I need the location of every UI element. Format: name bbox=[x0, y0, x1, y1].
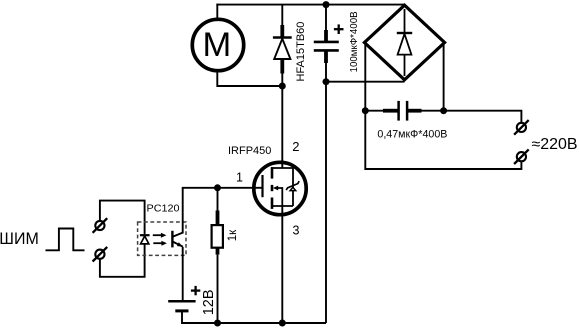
node cap1 bottom junction bbox=[323, 78, 330, 85]
svg-text:3: 3 bbox=[293, 224, 300, 238]
wire bridge left lead bbox=[364, 43, 366, 111]
polarity plus C1 bbox=[334, 24, 344, 34]
diode VD1 HFA15TB60 bbox=[273, 5, 292, 87]
node cap1 top junction bbox=[323, 1, 330, 8]
wire motor top lead bbox=[216, 4, 218, 20]
optocoupler phototransistor bbox=[172, 231, 183, 248]
optocoupler light arrows bbox=[153, 233, 167, 246]
wire collector lead bbox=[182, 188, 184, 234]
svg-text:HFA15TB60: HFA15TB60 bbox=[295, 22, 307, 82]
battery GB1 12V bbox=[168, 301, 195, 311]
svg-text:0,47мкФ*400В: 0,47мкФ*400В bbox=[377, 128, 447, 140]
wire source bbox=[281, 213, 283, 323]
terminal XS1 top 220V bbox=[514, 120, 529, 135]
node resistor bottom junction bbox=[214, 320, 221, 327]
svg-text:IRFP450: IRFP450 bbox=[228, 145, 271, 157]
wire pwm top loop bbox=[100, 201, 145, 234]
wire dc minus bbox=[326, 81, 405, 83]
svg-text:1: 1 bbox=[236, 171, 243, 185]
wire top rail bbox=[216, 4, 405, 6]
svg-text:PC120: PC120 bbox=[147, 203, 180, 214]
wire motor bottom lead bbox=[217, 71, 282, 87]
node cap2 left junction bbox=[362, 107, 369, 114]
wire bridge right lead bbox=[443, 43, 445, 111]
svg-text:M: M bbox=[203, 26, 232, 64]
resistor R1 1k bbox=[212, 189, 223, 323]
optocoupler U1 PC120 dashed box bbox=[138, 222, 186, 255]
transistor Q1 IRFP450 mosfet bbox=[252, 160, 306, 216]
node gate junction bbox=[214, 184, 221, 191]
wire emitter lead bbox=[182, 247, 184, 301]
svg-text:100мкФ*400В: 100мкФ*400В bbox=[348, 11, 360, 72]
wire from bottom terminal bbox=[365, 111, 521, 169]
node drain junction bbox=[279, 83, 286, 90]
svg-text:2: 2 bbox=[292, 139, 299, 154]
svg-text:ШИМ: ШИМ bbox=[0, 230, 39, 248]
wire negative vertical bbox=[325, 62, 327, 323]
svg-text:≈220В: ≈220В bbox=[532, 136, 578, 153]
svg-text:12В: 12В bbox=[201, 289, 217, 315]
optocoupler led bbox=[140, 235, 150, 244]
pulse waveform bbox=[46, 229, 85, 251]
wire pwm bottom loop bbox=[100, 244, 145, 277]
terminal XS3 pwm top bbox=[93, 218, 108, 233]
polarity plus battery bbox=[191, 286, 200, 295]
terminal XS4 pwm bottom bbox=[93, 247, 108, 262]
wire drain bbox=[281, 86, 283, 164]
wire gate bbox=[182, 187, 254, 189]
capacitor C2 0.47mkF 400V bbox=[365, 101, 443, 121]
wire bottom rail bbox=[182, 311, 326, 323]
motor M1 bbox=[192, 19, 243, 70]
wire to top terminal bbox=[444, 111, 522, 123]
terminal XS2 bottom 220V bbox=[514, 149, 529, 164]
node source junction bbox=[279, 320, 286, 327]
capacitor C1 100mkF 400V bbox=[314, 5, 339, 63]
node cap2 right junction bbox=[440, 107, 447, 114]
svg-text:1к: 1к bbox=[227, 229, 239, 241]
bridge rectifier VD2 bbox=[364, 5, 444, 80]
